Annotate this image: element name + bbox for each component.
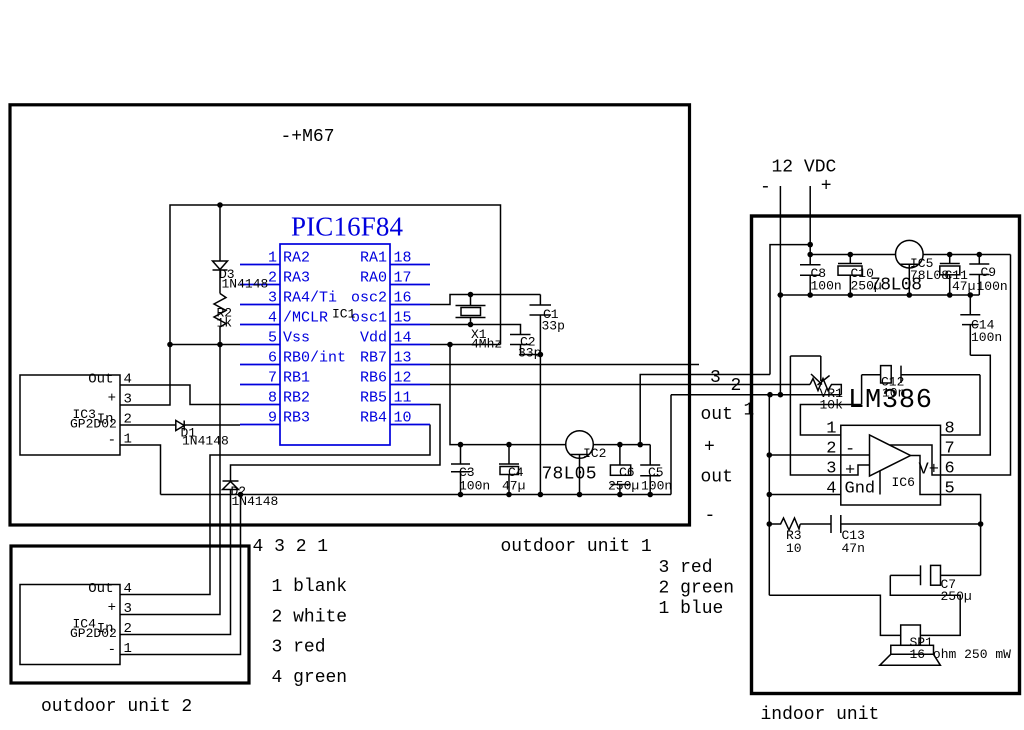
wire Vss line pin5	[170, 344, 240, 346]
svg-text:IC2: IC2	[583, 446, 606, 461]
svg-text:RB4: RB4	[360, 410, 387, 427]
svg-text:-+M67: -+M67	[281, 127, 335, 147]
svg-text:1N4148: 1N4148	[182, 434, 229, 449]
capacitor C5	[640, 445, 660, 495]
wire pin1 to C12	[800, 375, 861, 435]
svg-text:indoor unit: indoor unit	[761, 705, 880, 725]
wire cable4 ground to IC4 pin1	[120, 495, 241, 655]
svg-text:IC6: IC6	[892, 475, 915, 490]
svg-text:11: 11	[394, 390, 412, 407]
wire net3 to indoor	[640, 375, 770, 445]
svg-text:1: 1	[268, 250, 277, 267]
capacitor C2	[510, 335, 540, 355]
svg-text:osc1: osc1	[351, 310, 387, 327]
wire IC6 internal minus	[841, 454, 870, 456]
svg-text:5: 5	[945, 480, 955, 499]
wire IC6 internal plus	[841, 465, 870, 475]
svg-text:2: 2	[731, 376, 742, 396]
svg-text:12: 12	[394, 370, 412, 387]
svg-text:16 ohm 250 mW: 16 ohm 250 mW	[910, 647, 1012, 662]
svg-text:1: 1	[124, 641, 132, 657]
wire C1C2 ground drop	[539, 355, 541, 495]
svg-text:5: 5	[268, 330, 277, 347]
wire ground riser to wire1	[670, 395, 672, 495]
sensor IC4 GP2D02 box	[20, 585, 120, 665]
capacitor C13	[800, 515, 980, 533]
svg-text:12 VDC: 12 VDC	[772, 158, 837, 178]
node cable4 ground junction	[238, 492, 244, 498]
svg-text:-: -	[845, 441, 855, 460]
indoor labels	[786, 256, 1011, 662]
svg-text:2: 2	[268, 270, 277, 287]
svg-text:2: 2	[124, 621, 132, 637]
svg-text:15: 15	[394, 310, 412, 327]
wire osc1 pin15 to C2	[430, 325, 521, 335]
wire pin4 gnd	[769, 494, 841, 496]
svg-text:In: In	[97, 621, 114, 637]
svg-text:8: 8	[268, 390, 277, 407]
capacitor C4	[499, 445, 519, 495]
crystal X1	[456, 295, 486, 325]
svg-text:RB3: RB3	[283, 410, 310, 427]
svg-text:33p: 33p	[518, 346, 541, 361]
svg-text:-: -	[108, 642, 116, 658]
node gnd bus dots	[767, 452, 773, 527]
svg-text:RA3: RA3	[283, 270, 310, 287]
wire 12VDC minus drop	[779, 186, 781, 395]
node plus tee	[807, 242, 813, 248]
wire 12VDC plus drop	[809, 186, 811, 265]
svg-text:47µ: 47µ	[502, 479, 525, 494]
wire +8V rail to V+	[941, 255, 1011, 476]
svg-text:2: 2	[826, 440, 836, 459]
op-amp IC6 triangle	[870, 435, 911, 476]
svg-text:7: 7	[268, 370, 277, 387]
capacitor C10	[838, 255, 862, 296]
svg-text:IC1: IC1	[332, 307, 356, 322]
wire D2 to IC4 pin2	[120, 490, 231, 635]
svg-text:RA1: RA1	[360, 250, 387, 267]
speaker SP1	[880, 625, 941, 665]
diode D1	[176, 421, 184, 431]
IC3 pin labels	[88, 372, 132, 449]
node C1 C2 junction	[538, 352, 544, 358]
svg-text:10: 10	[394, 410, 412, 427]
sensor IC3 GP2D02 box	[20, 375, 120, 455]
svg-text:3: 3	[710, 368, 721, 388]
wire RB7 pin13 net 3 stub	[430, 364, 699, 366]
capacitor C9	[969, 255, 989, 296]
svg-text:4 3 2 1: 4 3 2 1	[253, 537, 329, 557]
svg-text:3: 3	[124, 392, 132, 408]
component labels box1	[70, 267, 672, 641]
svg-text:-: -	[705, 506, 716, 526]
node Vss-D3	[217, 342, 223, 348]
svg-text:out: out	[701, 468, 733, 488]
78L08 IC5 regulator	[896, 240, 924, 295]
wire gnd to speaker left	[769, 595, 900, 635]
svg-text:1N4148: 1N4148	[222, 277, 269, 292]
svg-text:RA2: RA2	[283, 250, 310, 267]
svg-text:3: 3	[826, 460, 836, 479]
wire gnd bus indoor	[768, 395, 770, 596]
svg-text:+: +	[108, 391, 116, 407]
op-amp U1 PIC16F84 IC1 chip body	[240, 244, 430, 445]
svg-text:100n: 100n	[971, 330, 1002, 345]
wire pin5 output drop	[941, 495, 981, 576]
svg-text:100n: 100n	[977, 279, 1008, 294]
wire net1 ground out	[671, 394, 841, 396]
svg-text:6: 6	[945, 460, 955, 479]
svg-text:In: In	[97, 412, 114, 428]
node Vss-left	[167, 342, 173, 348]
wire RB6 pin12 net 2	[430, 384, 810, 386]
svg-text:+: +	[821, 177, 832, 197]
wire pin8 riser	[941, 375, 981, 435]
svg-text:LM386: LM386	[848, 386, 932, 416]
wire cable3 RB5 to D2	[231, 405, 441, 482]
svg-text:47µ: 47µ	[952, 279, 975, 294]
svg-text:RB2: RB2	[283, 390, 310, 407]
svg-text:+: +	[108, 600, 116, 616]
wire pin2 minus input	[769, 454, 841, 456]
IC4 pin labels	[88, 581, 132, 658]
node net3 tap	[637, 442, 643, 448]
wire D1 to PIC RB3	[184, 424, 240, 426]
outdoor unit 1 box	[10, 105, 690, 525]
svg-text:4: 4	[124, 372, 132, 388]
capacitor C11	[940, 255, 960, 296]
svg-text:osc2: osc2	[351, 290, 387, 307]
svg-text:1N4148: 1N4148	[232, 494, 279, 509]
svg-text:1 blank: 1 blank	[272, 577, 348, 597]
svg-text:RB0/int: RB0/int	[283, 350, 346, 367]
svg-text:17: 17	[394, 270, 412, 287]
wire IC6 internal gnd stub	[879, 471, 881, 495]
wire C14 to pin7 loop	[941, 355, 991, 455]
capacitor C7	[890, 565, 980, 585]
wire Vdd to 78L05 output rail	[450, 345, 566, 445]
capacitor C6	[610, 445, 630, 495]
svg-text:33p: 33p	[542, 319, 565, 334]
diode D3	[213, 205, 228, 294]
node top rail D3 tap	[217, 202, 223, 208]
wire Vdd pin14	[430, 344, 501, 346]
wire cable2 x=220 Vss to IC4 pin3	[120, 345, 220, 615]
node Vdd branch	[447, 342, 453, 348]
wire IC3 pin1 to ground rail	[120, 445, 161, 495]
svg-text:1 blue: 1 blue	[659, 599, 724, 619]
svg-text:V+: V+	[919, 461, 939, 480]
svg-text:18: 18	[394, 250, 412, 267]
svg-text:4: 4	[826, 480, 836, 499]
capacitor C1	[530, 295, 552, 355]
svg-text:RB6: RB6	[360, 370, 387, 387]
IC6 pin labels	[826, 420, 954, 499]
wire indoor ground rail	[778, 294, 980, 296]
wire 78L08 rail	[810, 254, 1010, 256]
svg-text:Vdd: Vdd	[360, 330, 387, 347]
svg-text:4: 4	[268, 310, 277, 327]
wire top rail Vdd net	[170, 205, 501, 345]
capacitor C3	[451, 445, 470, 495]
svg-text:-: -	[108, 433, 116, 449]
svg-text:250µ: 250µ	[608, 479, 639, 494]
svg-text:-: -	[760, 178, 771, 198]
section texts	[41, 158, 879, 726]
svg-text:10: 10	[786, 541, 802, 556]
svg-text:Gnd: Gnd	[845, 480, 876, 499]
capacitor C14	[960, 295, 980, 355]
outdoor unit 2 box	[11, 546, 249, 683]
wire osc2 pin16 to crystal rail	[430, 295, 540, 305]
svg-text:4: 4	[124, 581, 132, 597]
svg-text:78L05: 78L05	[542, 465, 597, 485]
wire IC3 pin2 to D1	[120, 424, 176, 426]
svg-text:1: 1	[744, 401, 755, 421]
wire 78L05 input rail	[593, 444, 650, 446]
op-amp IC6 LM386 box	[841, 425, 941, 505]
svg-text:13: 13	[394, 350, 412, 367]
diode D2	[223, 481, 239, 490]
svg-text:1: 1	[124, 432, 132, 448]
node gnd rail dots	[778, 252, 982, 298]
svg-text:Out: Out	[88, 372, 113, 388]
svg-text:3 red: 3 red	[272, 638, 326, 658]
svg-text:1k: 1k	[217, 316, 233, 331]
wire C7 to speaker right	[890, 575, 960, 635]
svg-text:16: 16	[394, 290, 412, 307]
svg-text:RB5: RB5	[360, 390, 387, 407]
svg-text:100n: 100n	[641, 479, 672, 494]
svg-text:4Mhz: 4Mhz	[471, 337, 502, 352]
svg-text:47n: 47n	[842, 541, 865, 556]
svg-text:4 green: 4 green	[272, 668, 348, 688]
svg-text:RA4/Ti: RA4/Ti	[283, 290, 337, 307]
svg-text:2 green: 2 green	[659, 579, 735, 599]
svg-text:RB7: RB7	[360, 350, 387, 367]
svg-text:outdoor unit 2: outdoor unit 2	[41, 697, 192, 717]
potentiometer VR1	[790, 356, 841, 475]
node rail dots 78L05	[458, 442, 653, 498]
capacitor C12	[862, 366, 980, 383]
wire cable1 x=210 RB4 to IC4 pin4	[120, 425, 430, 595]
svg-text:6: 6	[268, 350, 277, 367]
svg-text:RB1: RB1	[283, 370, 310, 387]
svg-text:8: 8	[945, 420, 955, 439]
node wire1 dots	[767, 392, 773, 398]
svg-text:14: 14	[394, 330, 412, 347]
node C6 top	[617, 442, 623, 448]
svg-text:1: 1	[826, 420, 836, 439]
wire plus tee to net3 riser	[770, 245, 810, 375]
node crystal top	[468, 292, 474, 298]
svg-text:3: 3	[124, 601, 132, 617]
wire IC6 internal V+	[890, 445, 941, 475]
node rail plus	[807, 252, 813, 258]
svg-text:outdoor unit 1: outdoor unit 1	[501, 537, 652, 557]
svg-text:PIC16F84: PIC16F84	[291, 212, 404, 242]
resistor R2	[214, 294, 226, 345]
svg-text:9: 9	[268, 410, 277, 427]
node crystal bottom	[468, 322, 474, 328]
svg-text:78L08: 78L08	[870, 276, 922, 296]
IC1 PIC16F84 labels	[268, 212, 412, 427]
resistor R3	[769, 518, 800, 530]
node zobel junction	[978, 521, 984, 527]
wire IC6 internal output	[911, 456, 941, 495]
svg-text:Out: Out	[88, 581, 113, 597]
78L05 IC2 regulator	[566, 431, 594, 495]
svg-text:3: 3	[268, 290, 277, 307]
svg-text:100n: 100n	[459, 479, 490, 494]
svg-text:100n: 100n	[811, 279, 842, 294]
svg-text:Vss: Vss	[283, 330, 310, 347]
svg-text:+: +	[704, 438, 715, 458]
capacitor C8	[800, 265, 821, 295]
svg-text:+: +	[845, 462, 855, 481]
svg-text:7: 7	[945, 440, 955, 459]
svg-text:2: 2	[124, 412, 132, 428]
indoor unit box	[752, 216, 1020, 694]
svg-text:3 red: 3 red	[659, 558, 713, 578]
wire box1 ground rail	[161, 494, 672, 496]
wire IC3 pin4 to PIC RB2	[120, 385, 240, 405]
svg-text:10k: 10k	[820, 398, 844, 413]
wire IC3 pin3 to Vss	[120, 345, 170, 406]
svg-text:out: out	[701, 405, 733, 425]
svg-text:C9: C9	[981, 265, 997, 280]
svg-text:RA0: RA0	[360, 270, 387, 287]
svg-text:2 white: 2 white	[272, 608, 348, 628]
svg-text:250µ: 250µ	[941, 589, 972, 604]
svg-text:/MCLR: /MCLR	[283, 310, 328, 327]
